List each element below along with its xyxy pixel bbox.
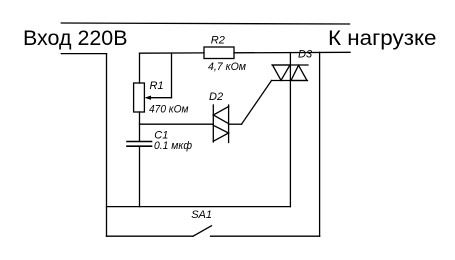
wire: C1 bottom down to return line xyxy=(139,146,141,206)
wire: gate diagonal up to triac D3 xyxy=(242,81,272,125)
svg-text:К нагрузке: К нагрузке xyxy=(328,27,437,50)
resistor R2 body xyxy=(204,47,234,59)
svg-text:R2: R2 xyxy=(211,35,225,47)
wire: bottom rail right segment xyxy=(211,235,320,237)
triac D3 xyxy=(272,65,309,81)
wire: junction down to capacitor C1 xyxy=(139,124,141,141)
wire: lower return line (left vertical to triac cathode) xyxy=(107,206,291,208)
svg-text:470 кОм: 470 кОм xyxy=(149,104,189,116)
svg-text:Вход 220В: Вход 220В xyxy=(23,27,128,50)
wire: lower input terminal horizontal xyxy=(61,53,106,55)
svg-text:0.1 мкф: 0.1 мкф xyxy=(154,140,192,152)
switch SA1 lever xyxy=(193,226,212,237)
wire: R1 bottom to junction node xyxy=(139,112,141,124)
wire: mid rail right part (R2 to output terminal) xyxy=(234,51,350,54)
capacitor C1 plates xyxy=(127,142,152,147)
svg-text:D2: D2 xyxy=(209,91,223,103)
wire: junction to diac D2 xyxy=(140,123,214,125)
svg-text:D3: D3 xyxy=(298,49,313,61)
potentiometer R1 wiper arrow xyxy=(145,96,172,100)
wire: bottom rail left segment xyxy=(107,235,194,237)
wire: left vertical (input neutral down to bottom rail) xyxy=(106,54,108,237)
svg-text:R1: R1 xyxy=(150,80,164,92)
diac D2 xyxy=(213,105,228,143)
wire: wiper return up to mid rail xyxy=(171,53,173,98)
wire: right vertical (bottom rail up to mid rail) xyxy=(319,52,321,236)
wire: triac bottom down to return line xyxy=(289,81,291,207)
svg-text:SA1: SA1 xyxy=(191,209,212,221)
wire: top rail from input to load xyxy=(61,23,349,24)
potentiometer R1 body xyxy=(134,83,145,112)
wire: mid rail left part (node R1 top to R2) xyxy=(140,52,205,54)
wire: diac output xyxy=(229,123,242,125)
wire: mid rail down to triac top bar xyxy=(289,53,291,65)
wire: branch from mid rail down to R1 top xyxy=(139,53,141,83)
svg-text:4,7 кОм: 4,7 кОм xyxy=(208,61,246,73)
